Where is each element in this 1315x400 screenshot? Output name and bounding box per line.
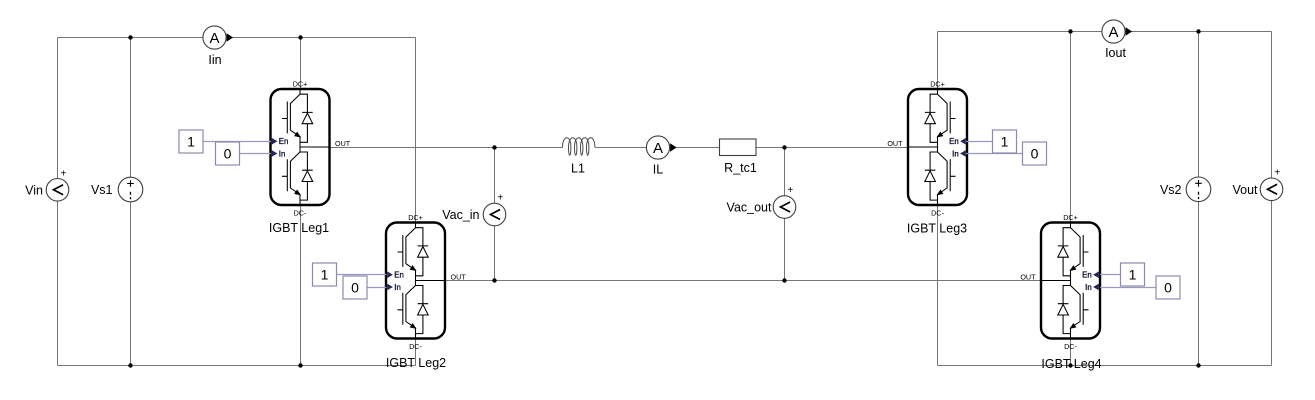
constant block 0 for Leg2 In: [343, 276, 367, 299]
svg-text:0: 0: [1164, 280, 1172, 296]
svg-text:DC+: DC+: [1063, 213, 1078, 222]
wire: IGBT Leg4 DC- drop: [1070, 339, 1072, 366]
constant block 0 for Leg1 In: [216, 142, 240, 165]
node: Vac_out on OUT bus: [782, 145, 786, 149]
wire: left DC- bottom bus: [58, 365, 416, 367]
svg-text:+: +: [1274, 168, 1280, 179]
svg-text:Vs2: Vs2: [1160, 183, 1182, 197]
wire: right DC+ top bus: [938, 31, 1272, 33]
svg-text:R_tc1: R_tc1: [724, 161, 757, 175]
signal wire: Leg4 In to const 0: [1100, 287, 1156, 289]
signal wire: const 0 to Leg2 In: [367, 287, 387, 289]
svg-text:Vac_out: Vac_out: [727, 201, 772, 215]
svg-text:DC-: DC-: [409, 342, 422, 351]
svg-text:+: +: [60, 168, 66, 179]
svg-text:DC+: DC+: [408, 213, 423, 222]
node: Vs1 on top bus: [128, 35, 132, 39]
wire: Vs1 branch vertical: [130, 38, 132, 366]
constant block 1 for Leg2 En: [313, 263, 337, 286]
IGBT half-bridge U3 (IGBT Leg3): [887, 80, 967, 236]
voltmeter Vin: [25, 168, 69, 201]
constant block 0 for Leg4 In: [1156, 276, 1180, 299]
svg-text:DC+: DC+: [293, 80, 308, 89]
svg-text:Iout: Iout: [1105, 46, 1126, 60]
node: Leg1 DC+ on top bus: [298, 35, 302, 39]
svg-text:In: In: [1085, 283, 1092, 292]
svg-text:OUT: OUT: [451, 273, 467, 282]
voltmeter Vac_in: [442, 192, 506, 226]
svg-text:Iin: Iin: [208, 53, 221, 67]
node: Vac_in on lower OUT bus: [492, 278, 496, 282]
node: Vs2 on right bottom bus: [1196, 363, 1200, 367]
svg-text:En: En: [1082, 271, 1092, 280]
svg-text:0: 0: [351, 280, 359, 296]
IGBT half-bridge U2 (IGBT Leg2): [386, 213, 466, 370]
wire: IGBT Leg3 DC+ drop: [937, 32, 939, 90]
svg-text:IGBT Leg3: IGBT Leg3: [907, 222, 967, 236]
wire: lower OUT bus Leg2 to Leg4: [445, 280, 1041, 282]
svg-text:OUT: OUT: [1020, 273, 1036, 282]
voltmeter Vac_out: [727, 185, 796, 219]
wire: IGBT Leg1 DC- drop: [300, 205, 302, 366]
svg-text:OUT: OUT: [335, 139, 351, 148]
node: Vac_in on OUT bus: [492, 145, 496, 149]
svg-text:OUT: OUT: [887, 139, 903, 148]
signal wire: const 1 to Leg2 En: [337, 274, 387, 276]
svg-text:In: In: [394, 283, 401, 292]
svg-text:IGBT Leg1: IGBT Leg1: [269, 221, 329, 235]
svg-text:1: 1: [321, 267, 329, 283]
svg-text:0: 0: [224, 146, 232, 162]
constant block 1 for Leg1 En: [179, 130, 203, 153]
node: Vs2 on right top bus: [1196, 29, 1200, 33]
voltage source Vs2: [1160, 177, 1211, 202]
svg-text:En: En: [394, 271, 404, 280]
svg-text:DC-: DC-: [294, 209, 307, 218]
node: Vac_out on lower OUT bus: [782, 278, 786, 282]
IGBT half-bridge U4 (IGBT Leg4): [1020, 213, 1101, 371]
svg-text:L1: L1: [571, 162, 585, 176]
wire: Vac_in branch vertical: [494, 148, 496, 281]
node: Leg4 DC- on right bottom bus: [1068, 363, 1072, 367]
svg-text:1: 1: [187, 134, 195, 150]
svg-text:In: In: [952, 149, 959, 158]
svg-text:Vout: Vout: [1232, 183, 1258, 197]
constant block 0 for Leg3 In: [1023, 142, 1047, 165]
svg-text:En: En: [949, 137, 959, 146]
node: Leg4 DC+ on right top bus: [1068, 29, 1072, 33]
wire: Vs2 branch vertical: [1198, 32, 1200, 366]
wire: IGBT Leg3 DC- drop: [937, 205, 939, 366]
svg-text:+: +: [497, 192, 503, 203]
svg-text:Vin: Vin: [25, 183, 43, 197]
wire: IGBT Leg4 DC+ drop: [1070, 32, 1072, 223]
signal wire: Leg4 En to const 1: [1100, 274, 1121, 276]
ammeter Iout: [1102, 20, 1132, 60]
wire: OUT bus Leg1 to L1: [330, 147, 563, 149]
inductor L1: [563, 138, 595, 176]
node: Vs1 on bottom bus: [128, 363, 132, 367]
svg-text:En: En: [279, 137, 289, 146]
wire: IGBT Leg1 DC+ drop: [300, 38, 302, 90]
node: Leg1 DC- on bottom bus: [298, 363, 302, 367]
wire: IGBT Leg2 DC+ drop: [415, 38, 417, 223]
IGBT half-bridge U1 (IGBT Leg1): [269, 80, 351, 236]
wire: Vout branch vertical: [1271, 32, 1273, 366]
ammeter IL: [646, 136, 676, 177]
voltage source Vs1: [91, 177, 143, 202]
svg-text:DC+: DC+: [930, 80, 945, 89]
svg-text:1: 1: [1001, 134, 1009, 150]
voltmeter Vout: [1232, 168, 1282, 201]
signal wire: Leg3 En to const 1: [966, 141, 993, 143]
svg-text:Vac_in: Vac_in: [442, 208, 479, 222]
svg-text:+: +: [787, 185, 793, 196]
signal wire: const 0 to Leg1 In: [240, 153, 272, 155]
wire: IGBT Leg2 DC- drop: [415, 339, 417, 366]
svg-text:Vs1: Vs1: [91, 183, 113, 197]
svg-text:1: 1: [1129, 267, 1137, 283]
wire: right DC- bottom bus: [938, 365, 1272, 367]
wire: left DC+ top bus: [58, 37, 416, 39]
wire: Vac_out branch vertical: [784, 148, 786, 281]
svg-text:0: 0: [1031, 146, 1039, 162]
resistor R_tc1: [720, 139, 757, 175]
svg-text:IGBT Leg4: IGBT Leg4: [1041, 357, 1101, 371]
svg-text:In: In: [279, 149, 286, 158]
svg-text:DC-: DC-: [1064, 342, 1077, 351]
constant block 1 for Leg3 En: [993, 130, 1017, 153]
constant block 1 for Leg4 En: [1121, 263, 1145, 286]
svg-text:IGBT Leg2: IGBT Leg2: [386, 356, 446, 370]
svg-text:DC-: DC-: [931, 209, 944, 218]
signal wire: const 1 to Leg1 En: [203, 141, 271, 143]
svg-text:IL: IL: [653, 163, 663, 177]
wire: Vin branch vertical: [57, 38, 59, 366]
wire: OUT bus L1 to Leg3: [595, 147, 908, 149]
ammeter Iin: [203, 26, 233, 67]
signal wire: Leg3 In to const 0: [966, 153, 1023, 155]
